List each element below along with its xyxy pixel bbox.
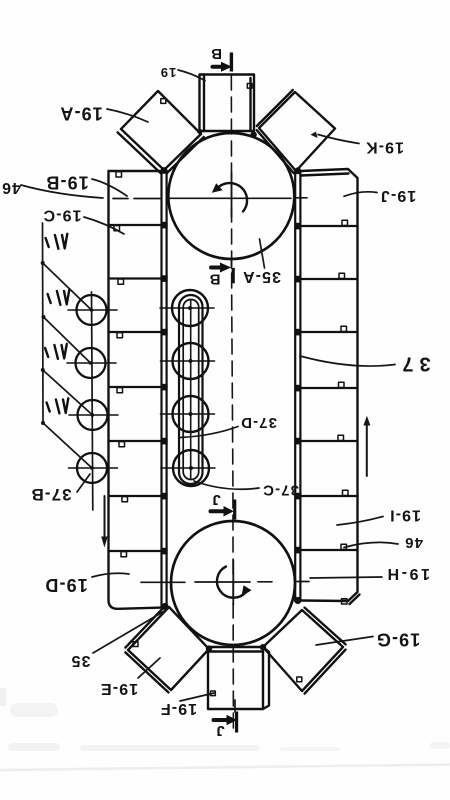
roller 37-B #1 bbox=[68, 295, 117, 325]
centerline vertical bbox=[231, 53, 233, 731]
centerline horizontal bottom drum bbox=[141, 581, 309, 584]
right plate notches bbox=[338, 220, 348, 604]
centerline horizontal top drum bbox=[113, 197, 307, 200]
leader 37-C bbox=[194, 481, 259, 489]
roller 37-B #4 bbox=[69, 453, 118, 483]
right rail bolt squares bbox=[294, 167, 301, 604]
svg-text:19-E: 19-E bbox=[100, 680, 138, 697]
roller 37-B #3 bbox=[69, 400, 118, 430]
chain slot 37-D capsule outer bbox=[179, 295, 203, 484]
chain roller #1 bbox=[160, 290, 214, 326]
leader 19-D bbox=[92, 573, 129, 577]
leader 19 bbox=[178, 70, 205, 81]
drum 35-A crosshair bbox=[231, 173, 233, 217]
svg-text:37-D: 37-D bbox=[240, 414, 277, 431]
leader 46 top-left bbox=[21, 185, 103, 198]
chain roller #4 bbox=[161, 450, 215, 486]
svg-text:19-B: 19-B bbox=[45, 173, 88, 193]
flow arrow left (down) bbox=[101, 496, 108, 548]
leader 19-J bbox=[344, 192, 377, 197]
svg-text:J: J bbox=[211, 491, 220, 508]
plate 19-K (top-right diamond) bbox=[257, 90, 335, 173]
svg-text:19-J: 19-J bbox=[380, 187, 416, 204]
rail 37 right bbox=[295, 171, 300, 602]
rail 37 left bbox=[162, 171, 167, 608]
svg-text:B: B bbox=[209, 271, 221, 288]
chain roller #2 bbox=[161, 343, 215, 379]
drum 35-A rotation arrow bbox=[212, 183, 247, 211]
svg-text:35: 35 bbox=[71, 652, 91, 669]
leader 35 bbox=[93, 610, 166, 653]
bracket line left bbox=[41, 223, 46, 425]
hatch marks group 4 bbox=[47, 398, 69, 413]
drum 35 rotation arrow bbox=[217, 567, 252, 598]
svg-text:19-C: 19-C bbox=[42, 207, 81, 224]
bracket diagonal to roller 1 bbox=[43, 263, 92, 310]
svg-text:19-A: 19-A bbox=[59, 104, 102, 124]
roller 37-B #2 bbox=[67, 348, 116, 378]
leader 37-D bbox=[180, 427, 238, 438]
chain center link line bbox=[190, 300, 192, 479]
svg-text:19-F: 19-F bbox=[160, 700, 197, 717]
left plate column outline bbox=[109, 171, 163, 609]
left plate divisions bbox=[109, 225, 162, 551]
plate 19-G (bottom-right diamond) bbox=[263, 608, 346, 694]
bracket diagonal to roller 3 bbox=[43, 370, 93, 415]
drum 35-A bbox=[168, 133, 294, 259]
plate 19-E (bottom-left diamond) bbox=[125, 605, 209, 693]
leader 19-A bbox=[107, 109, 148, 122]
bracket diagonal to roller 4 bbox=[43, 423, 92, 468]
hatch marks group 3 bbox=[45, 344, 67, 359]
leader 19-F bbox=[180, 693, 214, 701]
svg-text:19: 19 bbox=[160, 65, 177, 80]
section marker B top bbox=[210, 45, 233, 72]
plate 19-F (bottom center) bbox=[208, 647, 269, 709]
svg-text:37-C: 37-C bbox=[262, 482, 299, 499]
leader 37-B bbox=[77, 474, 90, 492]
leader 19-I bbox=[337, 517, 383, 526]
scan artifact streak bottom bbox=[0, 688, 450, 771]
leader 37 bbox=[300, 356, 395, 366]
leader 19-B bbox=[92, 179, 127, 196]
svg-text:46: 46 bbox=[1, 179, 21, 196]
left rail bolt squares bbox=[161, 167, 169, 610]
right plate column outline bbox=[301, 169, 360, 604]
hatch marks group 2 bbox=[48, 290, 70, 305]
plate 19 (top center) bbox=[200, 75, 255, 132]
svg-text:37: 37 bbox=[396, 352, 430, 374]
roller 37-B column vertical link line bbox=[92, 292, 93, 510]
svg-text:37-B: 37-B bbox=[30, 485, 71, 504]
drum 35 (bottom) bbox=[171, 521, 295, 645]
svg-text:J: J bbox=[215, 722, 224, 739]
leader 19-C bbox=[84, 217, 124, 234]
svg-text:46: 46 bbox=[404, 534, 423, 551]
leader 19-E bbox=[138, 658, 160, 678]
svg-text:35-A: 35-A bbox=[242, 268, 281, 285]
svg-text:19-H: 19-H bbox=[385, 565, 430, 582]
leader 46 bottom-right bbox=[344, 542, 398, 547]
svg-text:19-K: 19-K bbox=[365, 139, 404, 156]
plate 19-A (top-left diamond) bbox=[118, 91, 204, 173]
right plate divisions bbox=[300, 226, 357, 550]
chain roller #3 bbox=[161, 396, 215, 432]
section marker J top bbox=[211, 491, 237, 519]
leader 19-G bbox=[316, 637, 373, 646]
junction dot plate19/19-K bbox=[197, 129, 266, 652]
chain slot capsule inner bbox=[183, 300, 199, 480]
leader 19-K bbox=[311, 132, 360, 144]
svg-text:19-D: 19-D bbox=[44, 575, 87, 595]
drum 35 crosshair bbox=[232, 560, 234, 605]
bracket diagonal to roller 2 bbox=[44, 317, 91, 363]
left plate notches bbox=[114, 172, 128, 557]
hatch marks group 1 bbox=[46, 234, 68, 249]
section marker B mid bbox=[209, 259, 235, 288]
svg-text:19-I: 19-I bbox=[389, 507, 421, 524]
svg-text:19-G: 19-G bbox=[376, 630, 420, 650]
leader 19-H bbox=[310, 577, 382, 578]
flow arrow right (up) bbox=[363, 416, 370, 476]
section marker J bottom bbox=[214, 700, 239, 739]
leader 35-A bbox=[260, 239, 265, 268]
svg-text:B: B bbox=[210, 45, 222, 62]
